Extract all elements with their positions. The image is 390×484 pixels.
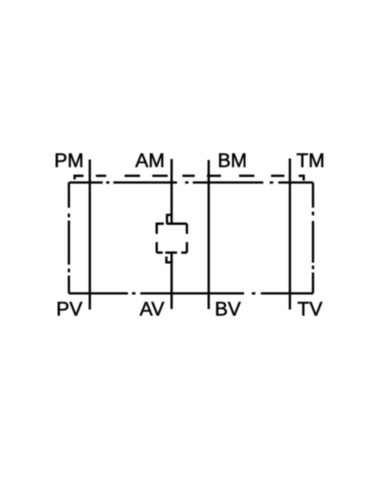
svg-text:PV: PV (56, 299, 82, 321)
svg-text:BM: BM (218, 150, 247, 172)
sandwich plate enclosure: chain rectangle, right edge (312, 183, 314, 294)
sandwich plate enclosure: chain rectangle, left edge (68, 183, 70, 294)
component U1: bottom plug hook (166, 257, 172, 263)
svg-text:AV: AV (140, 299, 165, 321)
wire A port line lower segment (component to AV) (170, 253, 172, 309)
sandwich plate enclosure: chain rectangle, bottom edge (69, 292, 313, 294)
wire P port line (PM to PV) (89, 160, 91, 310)
svg-text:TV: TV (297, 299, 322, 321)
svg-text:BV: BV (215, 299, 241, 321)
svg-text:PM: PM (54, 150, 83, 172)
sandwich plate enclosure: chain (dash-dot) rectangle, top edge (69, 181, 313, 183)
upper interface dashed line with end ticks (75, 176, 304, 181)
component U1: plug/orifice in A line, dashed square enclosure (157, 224, 187, 253)
component U1: top plug hook (167, 215, 172, 224)
wire A port line upper segment (AM to component) (170, 159, 172, 224)
wire T port line (TM to TV) (289, 159, 291, 310)
wire B port line (BM to BV) (208, 160, 210, 309)
svg-text:TM: TM (296, 150, 324, 172)
svg-text:AM: AM (135, 150, 164, 172)
